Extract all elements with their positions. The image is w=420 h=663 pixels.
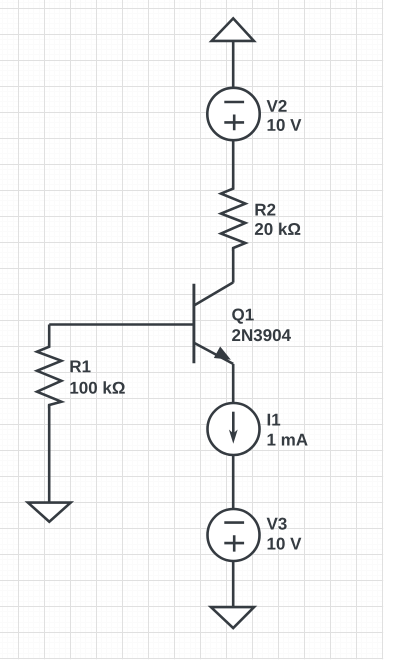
label V2 — [267, 100, 287, 112]
wire R1 to ground — [48, 405, 51, 503]
ground left — [28, 503, 71, 522]
wire base corner down to R1 — [48, 325, 51, 347]
wire V2 to R2 — [232, 140, 235, 188]
label 2N3904 — [232, 329, 291, 341]
wire I1 to V3 — [232, 455, 235, 510]
voltage source V2 — [207, 88, 259, 140]
wire Q1 base — [49, 323, 194, 326]
label 100 kOhm — [70, 381, 124, 393]
resistor R2 — [221, 186, 245, 252]
wire R2 to Q1 collector — [232, 248, 235, 283]
current source I1 — [208, 403, 260, 455]
label V3 — [267, 518, 287, 530]
label Q1 — [232, 309, 254, 324]
label R1 — [70, 361, 90, 373]
ground bottom — [211, 607, 254, 628]
label 20 kOhm — [255, 223, 300, 235]
power symbol VCC — [212, 18, 254, 41]
transistor Q1 — [194, 282, 233, 364]
label 10 V — [268, 119, 302, 131]
voltage source V3 — [208, 509, 260, 561]
label I1 — [268, 414, 281, 426]
wire Q1 emitter to I1 — [232, 364, 235, 403]
resistor R1 — [37, 344, 61, 409]
wire power to V2 — [232, 41, 235, 88]
label R2 — [255, 204, 275, 216]
label 1 mA — [268, 434, 308, 446]
wire V3 to ground — [232, 561, 235, 607]
label 10 V (V3) — [268, 538, 302, 550]
